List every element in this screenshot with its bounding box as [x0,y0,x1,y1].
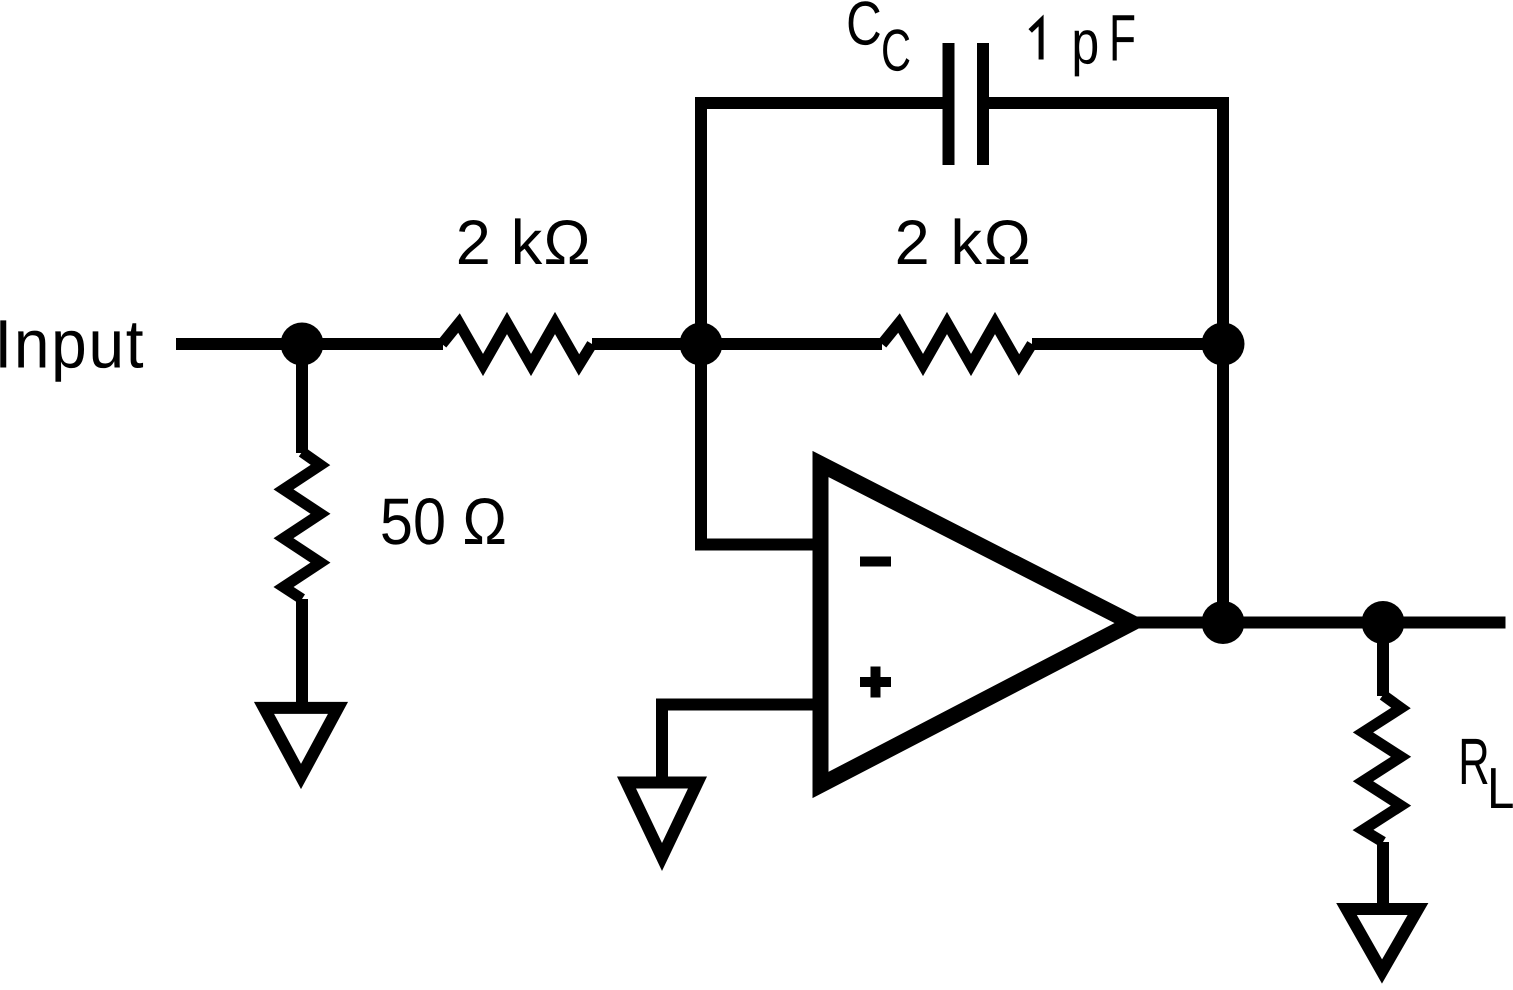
resistor RL [1363,695,1401,842]
svg-text:Input: Input [0,305,145,382]
wire R3 to ground [296,599,308,708]
wire R2 to node C [1032,338,1223,350]
node B inverting input junction [680,323,723,366]
op-amp plus sign [860,677,891,687]
label 1 pF [1030,20,1041,59]
wire feedback loop top right and right vertical [989,103,1223,623]
node E output junction [1202,601,1245,644]
wire node B down to inverting input [701,344,816,545]
op-amp minus sign [860,557,891,567]
wire RL to ground [1377,842,1389,909]
wire node A down to 50 Ohm resistor [296,344,308,453]
capacitor CC left plate [943,43,955,165]
svg-text:2 kΩ: 2 kΩ [456,208,592,278]
svg-text:R: R [1458,726,1489,799]
wire non-inverting input to ground [662,705,816,786]
capacitor CC right plate [977,43,989,165]
node C feedback junction [1202,323,1245,366]
svg-text:p: p [1071,9,1099,78]
svg-text:C: C [846,0,882,58]
ground G2 non-inverting input [627,783,698,858]
op-amp U1 triangle [821,464,1133,785]
wire node F down to RL [1377,623,1389,697]
wire R1 to node B [592,338,882,350]
svg-text:C: C [881,18,911,84]
wire feedback loop left vertical and top left [701,103,943,344]
node A input junction [281,323,324,366]
wire input horizontal [176,338,443,350]
resistor R3 50 Ohm [284,452,321,599]
ground G1 input termination [264,708,338,777]
resistor R1 2 kOhm [442,323,592,365]
svg-text:50 Ω: 50 Ω [380,485,507,558]
ground G3 load [1347,909,1419,972]
wire output [1128,617,1506,629]
svg-text:F: F [1109,2,1136,75]
svg-text:2 kΩ: 2 kΩ [895,208,1033,278]
resistor R2 2 kOhm feedback [882,323,1032,365]
node F load junction [1362,601,1405,644]
svg-text:L: L [1487,756,1513,821]
